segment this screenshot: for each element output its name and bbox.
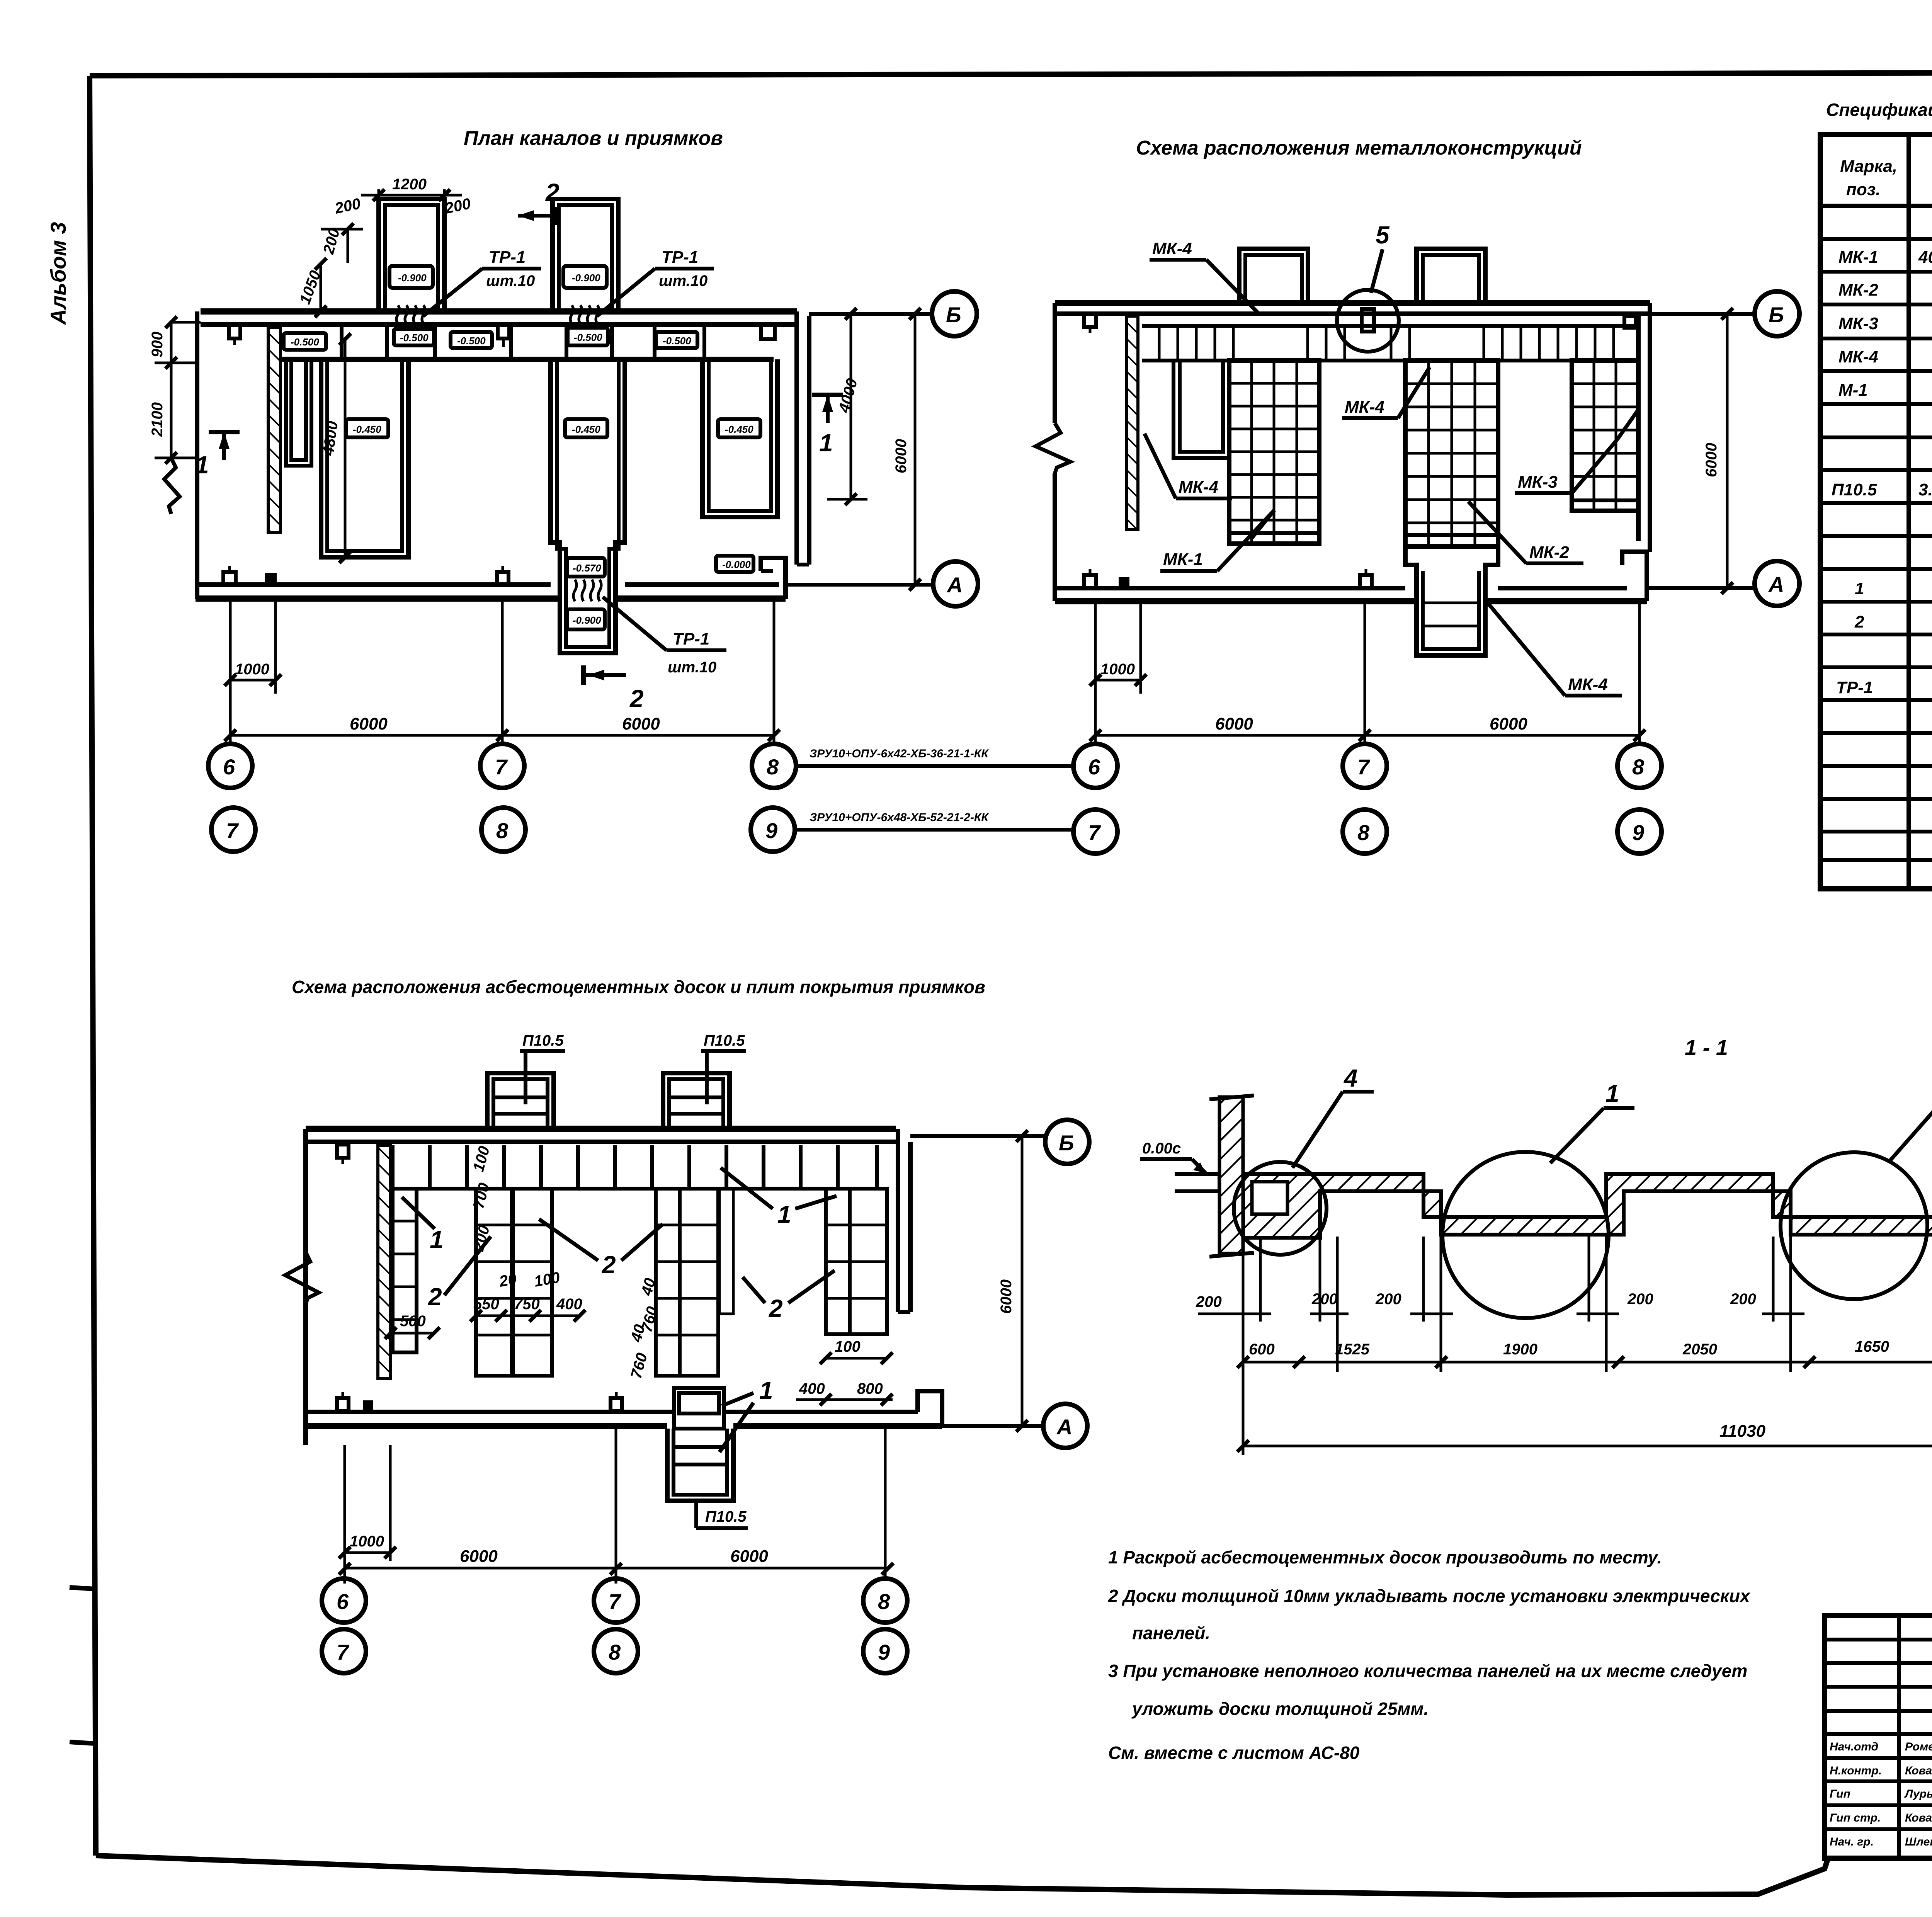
svg-text:8: 8 [609,1640,621,1664]
dim 1000 [230,679,276,682]
svg-text:МК-2: МК-2 [1838,281,1878,299]
svg-text:-0.900: -0.900 [398,272,427,284]
channel B with pit [551,359,625,653]
grid MK-2 [1405,361,1498,546]
svg-text:1: 1 [430,1226,444,1254]
top wall [1055,300,1650,306]
row lines [1820,239,1932,860]
svg-text:П10.5: П10.5 [704,1032,745,1049]
plain channel left [1173,361,1229,458]
dim line 6000x2 [344,1567,885,1570]
MK-4 label top-left [1150,239,1259,314]
svg-text:Марка,: Марка, [1840,157,1897,176]
grid MK-3 [1572,361,1638,511]
main title block frame [1825,1616,1932,1858]
svg-text:7: 7 [337,1640,350,1664]
svg-text:200: 200 [1730,1291,1756,1308]
svg-text:А: А [946,573,963,597]
grid circles bottom row2 [211,808,255,852]
svg-text:МК-4: МК-4 [1179,478,1218,497]
floor slab band with trenches [1219,1174,1932,1238]
svg-text:6000: 6000 [730,1547,768,1566]
grid circles bottom row1 [322,1579,366,1623]
grid circle A [1755,561,1799,606]
grid circles bottom row1 [1073,744,1117,788]
hatched existing wall [1126,316,1138,529]
bottom wall [196,582,551,587]
channel C [702,359,777,517]
svg-text:2050: 2050 [1682,1341,1717,1358]
grid circle B [932,291,977,336]
svg-text:1: 1 [1605,1080,1619,1107]
svg-text:750: 750 [514,1296,540,1313]
svg-text:550: 550 [473,1296,499,1313]
svg-text:Б: Б [1769,303,1784,327]
svg-text:Нач. гр.: Нач. гр. [1830,1835,1874,1848]
svg-text:1000: 1000 [235,661,269,678]
bottom column extensions [344,1445,346,1584]
right wall bar [896,1129,900,1312]
svg-text:-0.450: -0.450 [572,424,600,435]
grid circles [1045,1120,1089,1164]
corner mark top right [1624,316,1636,328]
bottom column extensions [229,601,232,745]
top pit 2 [663,1073,730,1129]
svg-text:ЗРУ10+ОПУ-6х42-ХБ-36-21-1-КК: ЗРУ10+ОПУ-6х42-ХБ-36-21-1-КК [810,747,989,760]
top board row [393,1187,877,1191]
column marks [337,1145,349,1164]
svg-text:7: 7 [226,818,239,843]
svg-text:-0.000: -0.000 [722,559,751,570]
MK-2 pit below [1405,546,1498,655]
svg-text:8: 8 [1357,820,1370,845]
grid circles bottom row2 [1073,810,1117,854]
svg-text:200: 200 [1196,1293,1222,1310]
detail circle 4 [1234,1162,1327,1255]
bottom wall L-step [1622,552,1647,601]
dim 200 vertical [321,228,363,231]
svg-text:11030: 11030 [1719,1422,1766,1441]
grid circles bottom row2 [322,1629,366,1673]
svg-text:шт.10: шт.10 [668,659,716,676]
grid MK-1 [1229,361,1319,544]
dim line 6000x2 [230,734,774,737]
0.000 box [716,556,753,572]
svg-text:7: 7 [495,755,508,779]
right wall [1636,314,1641,541]
svg-text:П10.5: П10.5 [1832,480,1877,499]
ZRU link lines [797,764,1073,768]
svg-text:Б: Б [946,303,961,327]
svg-text:1 - 1: 1 - 1 [1685,1035,1728,1060]
svg-text:6000: 6000 [350,714,388,733]
column marks on walls [229,325,240,345]
board columns D middle pair [656,1189,680,1376]
left wall [303,1129,308,1445]
svg-text:-0.900: -0.900 [572,272,600,284]
svg-text:Гип: Гип [1830,1788,1850,1800]
top wall [306,1126,896,1132]
svg-text:2 Доски толщиной 10мм укладыва: 2 Доски толщиной 10мм укладывать после у… [1108,1586,1751,1606]
svg-text:2: 2 [1854,612,1864,631]
svg-text:МК-2: МК-2 [1529,543,1569,562]
right wall [794,311,799,565]
dim 1000 [1095,679,1141,682]
top pit 1 [379,199,444,311]
svg-text:100: 100 [835,1338,861,1355]
TP-1 labels top [423,248,541,316]
dim 1000 [345,1551,390,1554]
svg-text:600: 600 [1249,1341,1275,1358]
dim line 6000x2 [1095,734,1639,737]
board column A [393,1189,417,1352]
svg-text:3 При установке неполного коли: 3 При установке неполного количества пан… [1108,1661,1747,1681]
svg-text:2100: 2100 [149,402,166,437]
svg-text:А: А [1768,572,1784,597]
plate label boxes [284,333,326,350]
main dim line [1243,1361,1932,1364]
wall column marks [1084,314,1096,333]
svg-text:МК-3: МК-3 [1838,314,1878,333]
extension to grid circles [809,312,932,316]
narrow channel [286,359,311,466]
board columns F/G right [826,1189,850,1334]
svg-text:9: 9 [1632,820,1644,845]
svg-text:Гип стр.: Гип стр. [1830,1812,1881,1824]
grid circles bottom row1 [208,744,252,788]
svg-text:1: 1 [819,429,833,457]
svg-text:8: 8 [767,755,779,779]
svg-text:ТР-1: ТР-1 [1836,678,1873,697]
horizontal grating rails [1142,324,1638,328]
svg-text:ТР-1: ТР-1 [673,629,709,648]
left wall [195,311,199,599]
left dim chain [155,362,197,364]
svg-text:407-3-0634.92-АСИ-28: 407-3-0634.92-АСИ-28 [1918,248,1932,267]
dim 6000 vertical [1726,314,1729,588]
svg-text:ЗРУ10+ОПУ-6х48-ХБ-52-21-2-КК: ЗРУ10+ОПУ-6х48-ХБ-52-21-2-КК [810,811,989,824]
dim 11030 [1243,1445,1932,1448]
svg-text:6000: 6000 [622,714,660,733]
dim 6000 vertical [914,314,917,585]
svg-text:7: 7 [1088,820,1101,845]
svg-text:шт.10: шт.10 [659,272,707,289]
svg-text:1525: 1525 [1335,1341,1370,1358]
dim 6000 vertical [1021,1136,1024,1426]
svg-text:6000: 6000 [1490,714,1527,733]
column lines [1906,134,1911,889]
svg-text:-0.450: -0.450 [353,424,381,435]
svg-text:8: 8 [1632,755,1645,779]
svg-text:Б: Б [1059,1131,1074,1155]
svg-text:1200: 1200 [392,176,427,193]
svg-text:Схема расположения асбестоцеме: Схема расположения асбестоцементных досо… [292,977,985,997]
header bottom [1820,204,1932,208]
svg-text:2: 2 [629,685,644,713]
svg-text:-0.500: -0.500 [457,335,486,347]
svg-text:1: 1 [759,1376,773,1404]
svg-text:6000: 6000 [1703,443,1720,477]
bottom wall [1055,586,1405,590]
MK-4 label left-lower [1145,434,1232,498]
svg-text:МК-4: МК-4 [1568,675,1608,694]
bottom pit [674,1388,724,1429]
svg-text:А: А [1056,1415,1072,1439]
svg-text:2: 2 [545,179,560,206]
svg-text:Шленево: Шленево [1905,1835,1932,1848]
svg-text:1: 1 [777,1201,791,1228]
dim 1050 vertical [320,264,322,314]
detail circle 2 [1781,1152,1927,1299]
svg-text:20: 20 [498,1271,518,1290]
svg-text:1000: 1000 [1100,661,1135,678]
MK-4 label mid [1342,367,1430,418]
svg-text:900: 900 [149,332,166,357]
svg-text:200: 200 [1627,1291,1653,1308]
small dims [391,1332,434,1335]
left signature columns [1825,1616,1932,1858]
svg-text:2: 2 [428,1283,442,1311]
svg-text:1650: 1650 [1855,1338,1889,1355]
svg-text:400: 400 [799,1380,825,1397]
channel bottom line [281,357,774,362]
svg-text:-0.570: -0.570 [573,562,601,574]
svg-text:Нач.отд: Нач.отд [1830,1740,1878,1753]
svg-text:См. вместе с листом АС-80: См. вместе с листом АС-80 [1108,1743,1360,1763]
svg-text:МК-4: МК-4 [1152,239,1192,258]
channel A [321,359,408,557]
hatched wall [378,1145,391,1379]
svg-text:9: 9 [878,1640,890,1664]
svg-text:Лурье: Лурье [1904,1788,1932,1800]
plate row separators [340,325,344,359]
svg-text:МК-1: МК-1 [1838,248,1878,267]
board column B [476,1189,512,1376]
svg-text:1: 1 [1855,579,1864,598]
svg-text:П10.5: П10.5 [705,1508,747,1525]
section mark 1 right [812,393,843,397]
svg-text:200: 200 [1311,1291,1338,1308]
svg-text:6000: 6000 [460,1547,498,1566]
zigzag break left [164,458,180,514]
hatched existing wall [268,328,281,532]
svg-text:8: 8 [878,1589,890,1614]
svg-text:400: 400 [556,1296,582,1313]
detail circle 5 [1337,290,1399,352]
svg-text:500: 500 [400,1313,426,1330]
svg-text:М-1: М-1 [1838,381,1868,400]
svg-text:5: 5 [1376,221,1390,249]
svg-text:Альбом 3: Альбом 3 [46,222,70,325]
left edge with break [1053,303,1057,423]
dim 1200 [378,189,380,199]
MK-1 label [1160,510,1274,571]
svg-text:Роменский: Роменский [1905,1740,1932,1753]
svg-text:поз.: поз. [1846,180,1880,199]
svg-text:План каналов и приямков: План каналов и приямков [464,127,723,150]
svg-text:3.407.1-157: 3.407.1-157 [1918,480,1932,499]
zigzag break [285,1252,319,1306]
svg-text:Ковалев: Ковалев [1905,1812,1932,1824]
svg-text:6000: 6000 [893,439,910,473]
top pit 1 [1239,249,1308,303]
grid circle A [933,561,978,606]
dim 4000 [850,314,852,499]
svg-text:-0.450: -0.450 [725,424,753,435]
labels 1/2 with leaders [402,1197,444,1254]
zigzag break [1036,423,1070,473]
svg-text:МК-3: МК-3 [1518,473,1558,492]
svg-text:МК-4: МК-4 [1345,398,1384,417]
svg-text:-0.500: -0.500 [291,336,319,348]
svg-text:6000: 6000 [998,1279,1015,1314]
extensions to circles [910,1134,1046,1138]
bottom wall [306,1410,674,1414]
svg-text:6000: 6000 [1215,714,1253,733]
MK-3 label [1515,410,1638,493]
TP-1 label bottom [603,597,726,676]
svg-text:Спецификация к схеме расположе: Спецификация к схеме расположения канало… [1826,100,1932,120]
svg-text:ТР-1: ТР-1 [489,248,526,267]
svg-text:уложить доски толщиной 25мм.: уложить доски толщиной 25мм. [1131,1699,1429,1719]
bottom column extensions [1094,603,1097,745]
top pit 2 [553,199,618,311]
svg-text:1: 1 [195,451,209,479]
top pit 2 [1417,249,1485,303]
top pit 1 [487,1073,554,1129]
svg-text:П10.5: П10.5 [522,1032,564,1049]
bottom wall L-step [761,558,786,599]
svg-text:0.00с: 0.00с [1142,1140,1181,1157]
svg-text:-0.900: -0.900 [573,614,601,626]
svg-text:-0.500: -0.500 [400,332,429,344]
MK-4 label bottom [1488,603,1622,696]
extensions to circles [1650,312,1754,316]
grid circle B [1755,291,1799,336]
section mark 2 bottom [581,665,586,685]
svg-text:200: 200 [1375,1291,1401,1308]
svg-text:Н.контр.: Н.контр. [1830,1764,1882,1777]
svg-text:1900: 1900 [1503,1341,1537,1358]
svg-text:2: 2 [602,1251,616,1279]
svg-text:7: 7 [609,1589,622,1614]
svg-text:панелей.: панелей. [1132,1623,1210,1643]
top wall [201,308,797,315]
200 dims [1198,1313,1932,1315]
MK-2 label [1468,502,1583,563]
svg-text:6: 6 [1088,755,1100,779]
pit A plate [1252,1182,1287,1214]
svg-text:шт.10: шт.10 [486,272,535,289]
svg-text:Ковалев: Ковалев [1905,1764,1932,1777]
section mark 1 left [209,430,240,434]
P10.5 labels top [520,1032,565,1104]
svg-text:2: 2 [769,1294,783,1322]
svg-text:Схема расположения металлоконс: Схема расположения металлоконструкций [1136,137,1582,159]
svg-text:800: 800 [857,1380,883,1397]
extension verticals [1243,1198,1932,1455]
svg-text:4: 4 [1343,1064,1358,1092]
svg-text:1000: 1000 [350,1533,384,1550]
svg-text:9: 9 [765,818,777,843]
svg-text:МК-1: МК-1 [1163,550,1203,569]
table outer frame [1820,134,1932,889]
board column C [513,1189,552,1376]
left wall [1219,1097,1243,1254]
svg-text:ТР-1: ТР-1 [662,248,698,267]
corner mark top right [761,325,775,339]
svg-text:6: 6 [223,755,235,779]
svg-text:8: 8 [496,818,509,843]
dim 4800 [344,339,347,557]
svg-text:6: 6 [337,1589,349,1614]
svg-text:-0.500: -0.500 [574,332,602,343]
svg-text:7: 7 [1357,755,1371,779]
detail circle 1 [1442,1152,1609,1318]
svg-text:-0.500: -0.500 [663,335,691,347]
svg-text:МК-4: МК-4 [1838,347,1878,366]
svg-text:1 Раскрой асбестоцементных дос: 1 Раскрой асбестоцементных досок произво… [1108,1547,1662,1567]
